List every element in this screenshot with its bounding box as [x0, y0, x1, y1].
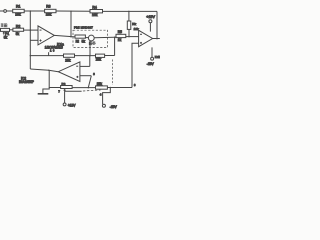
wire supply to op-amp: [149, 23, 151, 32]
resistor 25k first: [64, 54, 75, 57]
label CJK zero-adjust: [1, 24, 7, 27]
svg-text:R5: R5: [118, 30, 122, 34]
svg-text:R4: R4: [92, 5, 96, 9]
potentiometer P1: [1, 28, 10, 31]
node junction: [30, 10, 32, 12]
wire IC2 inverting input: [80, 65, 90, 67]
sensor circle: [88, 35, 94, 41]
plus mark: [40, 40, 42, 42]
wire: [24, 10, 44, 12]
resistor Rt: [75, 35, 85, 38]
svg-text:25k: 25k: [96, 57, 102, 61]
wire summing vertical: [29, 11, 31, 69]
svg-text:5k: 5k: [16, 32, 20, 36]
-15V supply terminal: [102, 104, 105, 107]
dashed supply route: [111, 60, 113, 86]
wire R3 drop: [70, 11, 72, 36]
wire to noninverting input: [30, 39, 38, 41]
input stub wire: [0, 10, 4, 12]
wire: [75, 55, 96, 57]
minus mark: [140, 33, 142, 35]
svg-text:+15V: +15V: [68, 104, 77, 108]
node junction: [30, 55, 32, 57]
wire wiper to +15V: [64, 91, 66, 103]
wire: [105, 55, 115, 57]
svg-text:INA105KP: INA105KP: [19, 80, 34, 84]
svg-text:R3: R3: [46, 5, 50, 9]
node junction: [128, 36, 130, 38]
wire: [85, 37, 88, 39]
svg-text:+15V: +15V: [146, 15, 155, 19]
svg-text:3: 3: [93, 72, 95, 76]
wire: [103, 10, 158, 12]
resistor 25k third: [96, 86, 108, 89]
ground: [38, 93, 49, 95]
wire IC2 output: [30, 69, 58, 72]
wire output: [153, 38, 160, 40]
wire: [10, 29, 13, 31]
svg-text:1k: 1k: [118, 38, 122, 42]
svg-text:IC1b: IC1b: [155, 55, 160, 59]
node junction: [89, 55, 91, 57]
svg-text:10k: 10k: [46, 13, 52, 17]
svg-text:25k: 25k: [97, 82, 103, 86]
resistor R5: [116, 34, 126, 37]
wire P2 to 25k: [72, 87, 95, 89]
minus mark: [40, 29, 42, 31]
dashed offset wire: [83, 90, 101, 91]
plus mark: [76, 76, 78, 78]
plus mark: [140, 42, 142, 44]
P1 wiper arrow: [3, 32, 5, 35]
wire wiper branch: [65, 90, 82, 92]
resistor Rk vertical: [127, 21, 131, 29]
node junction: [70, 10, 72, 12]
wire op-amp V-: [151, 47, 153, 57]
svg-text:5k: 5k: [82, 40, 86, 44]
wire IC1a output: [54, 35, 75, 37]
potentiometer P2: [61, 86, 73, 89]
svg-text:-15V: -15V: [147, 62, 155, 66]
wire to inverting input: [24, 29, 38, 31]
svg-text:7: 7: [58, 90, 60, 94]
svg-text:25k: 25k: [65, 58, 71, 62]
svg-text:R1: R1: [16, 5, 20, 9]
node junction: [88, 87, 90, 89]
op-amp IC1a: [38, 26, 54, 45]
svg-text:P2: P2: [62, 82, 66, 86]
svg-text:3: 3: [134, 83, 136, 87]
svg-text:R2: R2: [16, 25, 20, 29]
resistor R1: [13, 9, 25, 12]
label CJK sensor: [89, 42, 95, 45]
resistor 25k second: [96, 54, 105, 57]
svg-text:4: 4: [100, 92, 102, 96]
-15V supply terminal: [151, 57, 154, 60]
svg-text:5k: 5k: [4, 35, 8, 39]
wire Rk to node: [128, 29, 130, 36]
resistor R4: [90, 10, 103, 13]
node junction: [110, 87, 112, 89]
+15V supply terminal: [149, 20, 152, 23]
wire circle to R5: [94, 36, 114, 39]
pin stub: [48, 52, 50, 55]
wire rail to Rk: [128, 11, 130, 21]
wire IC2 noninverting input: [80, 75, 91, 77]
op-amp IC2 pointing left: [58, 62, 80, 82]
wire: [56, 10, 90, 12]
wire riser to IC1b noninverting input: [132, 43, 139, 87]
wire: [107, 87, 132, 89]
lower rail wire: [30, 55, 63, 57]
input terminal circle: [4, 10, 7, 13]
svg-text:10k: 10k: [92, 13, 98, 17]
wire sensor circle to lower rail and IC2 inverting input: [89, 41, 91, 67]
node junction: [114, 36, 116, 38]
wire riser to R5 node: [114, 37, 116, 55]
P2 wiper arrow: [64, 89, 66, 91]
wire feedback right edge: [156, 11, 158, 38]
+15V supply terminal: [63, 103, 66, 106]
wire R5 to op-amp: [126, 36, 139, 38]
wire ground branch: [43, 88, 49, 94]
op-amp IC1b: [139, 30, 153, 46]
svg-text:-15V: -15V: [110, 105, 118, 109]
node junction: [128, 11, 130, 13]
wire drop to P2 rail: [88, 76, 91, 88]
dashed box sensor: [73, 30, 108, 47]
node junction: [70, 36, 72, 38]
svg-text:10k: 10k: [15, 13, 21, 17]
svg-text:Rk: Rk: [132, 22, 136, 26]
wire -15V drop: [103, 88, 111, 105]
node junction: [156, 38, 158, 40]
minus mark: [76, 65, 78, 67]
resistor R2: [13, 28, 24, 31]
wire: [115, 36, 116, 38]
wire output drop to P2: [49, 70, 60, 87]
resistor R3: [45, 9, 56, 12]
node junction: [30, 29, 32, 31]
wire: [7, 10, 13, 12]
svg-text:Rt: Rt: [76, 40, 79, 44]
svg-text:PMI MXD087: PMI MXD087: [74, 25, 93, 29]
node junction: [48, 70, 50, 72]
